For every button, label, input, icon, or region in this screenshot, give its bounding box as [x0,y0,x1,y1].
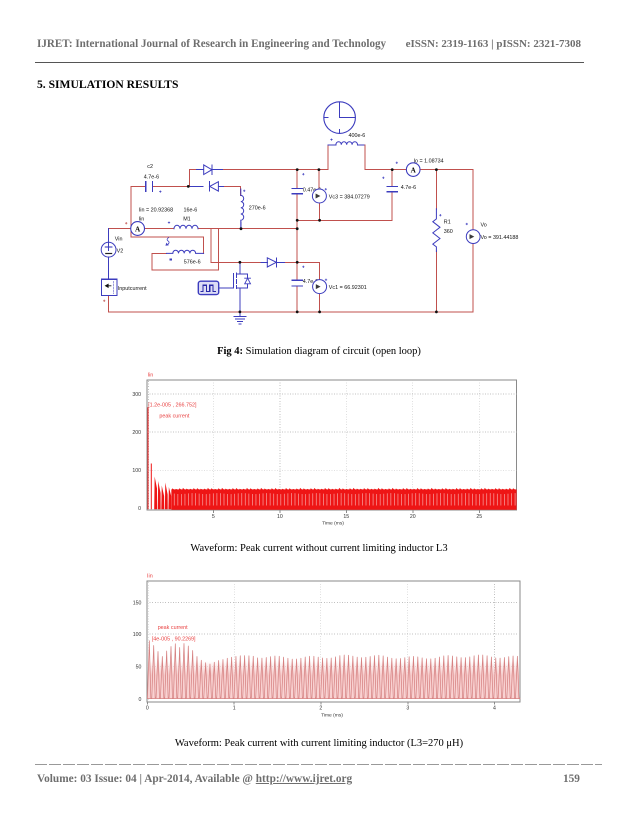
svg-text:Vo: Vo [481,223,487,229]
wire diode D3 leads [261,261,287,263]
svg-text:Vc3 = 384.07279: Vc3 = 384.07279 [329,194,370,200]
svg-text:360: 360 [444,229,453,235]
diode D3 (points right) [267,258,276,267]
inductor L4 400e-6 [336,142,358,145]
page number [563,773,580,785]
chart 2 y axis labels [133,600,142,703]
svg-text:10: 10 [277,514,283,520]
wire output right leg to voltmeter Vo [472,170,474,312]
waveform 1 caption [0,543,638,554]
wire C2 branch vertical [130,186,132,236]
svg-text:Iin: Iin [147,574,153,580]
svg-text:100: 100 [132,468,141,474]
junction C2 / D1 / D2 node [187,185,190,188]
wire diode D3 line [211,261,262,263]
svg-text:Inputcurrent: Inputcurrent [118,286,147,292]
svg-text:16e-6: 16e-6 [184,207,198,213]
svg-text:Vc1 = 66.92301: Vc1 = 66.92301 [329,285,367,291]
svg-text:270e-6: 270e-6 [249,205,266,211]
junction top rail / C3 cap [296,168,299,171]
wire Vin top to ammeter Iin [109,228,131,230]
wire inductor L4 left lead [328,144,336,146]
wire ammeter Io to output corner [420,169,473,171]
chart 1 x axis labels [212,514,482,520]
svg-text:300: 300 [132,392,141,398]
inductor L3 270e-6 [241,189,244,228]
junction ground rail / C1 cap [296,311,299,314]
svg-text:5: 5 [212,514,215,520]
wire 0.47uF cap branch vertical [296,170,298,312]
chart 1 plot frame and grid [147,380,517,513]
svg-text:c2: c2 [147,164,153,170]
wire cap C4 4.7uF leads [391,170,393,221]
svg-text:4.7e-6: 4.7e-6 [144,175,159,181]
svg-text:A: A [411,166,417,174]
svg-text:0: 0 [138,506,141,512]
waveform 2 caption [0,738,638,749]
svg-text:[4e-005 , 90.2269]: [4e-005 , 90.2269] [152,636,196,642]
wire inductor L3 bottom lead to node A [240,222,242,229]
svg-text:0: 0 [139,697,142,703]
svg-text:peak current: peak current [158,625,188,631]
svg-text:[1.2e-005 , 266.752]: [1.2e-005 , 266.752] [148,403,197,409]
capacitor c2 4.7e-6 [146,182,153,192]
svg-text:Iin: Iin [148,373,154,379]
svg-text:4.7e-6: 4.7e-6 [401,185,416,191]
chart 1 y axis labels [132,392,141,512]
voltmeter Vo [466,230,480,244]
wire node A down to secondary return [217,229,219,271]
capacitor 0.47e-6 [292,189,302,194]
chart 2 x axis labels [146,706,496,712]
svg-text:576e-6: 576e-6 [184,260,201,266]
chart 2 red annotations [147,574,196,643]
svg-text:2: 2 [319,706,322,712]
junction ground rail / R1 [435,311,438,314]
voltage source Vin (V2) [108,229,110,280]
junction top rail / C4 cap [391,168,394,171]
wire top rail D2 to transformer riser [224,145,329,170]
svg-text:Io = 1.08734: Io = 1.08734 [414,158,444,164]
svg-text:A: A [135,225,141,233]
svg-text:V2: V2 [117,249,124,255]
capacitor C4 4.7e-6 output filter [387,186,397,191]
junction D3 line / C1 cap [296,261,299,264]
svg-text:0: 0 [146,706,149,712]
svg-text:Vin: Vin [115,237,123,243]
svg-text:100: 100 [133,632,142,638]
inductor 576e-6 (secondary) [167,250,204,253]
junction mid rail / voltmeter Vc3 [318,219,321,222]
inductor M1 16e-6 (primary) [174,225,198,228]
junction node A / C3 branch [296,227,299,230]
svg-text:400e-6: 400e-6 [349,133,366,139]
wire node A rail: M1 right to 0.47uF cap branch [198,228,297,230]
svg-text:Iin = 20.92368: Iin = 20.92368 [139,207,173,213]
wire ammeter Iin to inductor M1 [145,228,174,230]
wire diode D1 anode to inductor L3 corner [218,185,226,187]
svg-text:15: 15 [343,514,349,520]
svg-text:M1: M1 [183,217,191,223]
voltmeter Vc3 [312,189,326,203]
wire diode D2 branch riser [189,170,197,187]
wire input source bottom lead [108,295,110,312]
section heading [37,78,178,91]
junction node A / L3 bottom [240,227,243,230]
wire node A down to diode D3 line [210,229,212,263]
figure 4 caption [0,346,638,357]
wire mid rail under caps [297,219,392,221]
gate pulse source [198,281,218,294]
wire secondary top return to C2 branch [131,236,204,238]
junction ground rail / mosfet source [239,311,242,314]
wire secondary right leg up [203,237,205,254]
svg-text:peak current: peak current [159,414,189,420]
ground [234,312,246,324]
junction mid rail / C3 cap [296,219,299,222]
journal header left [37,38,386,50]
ammeter Io [406,163,420,177]
diode D2 (points right) [204,165,212,175]
svg-text:50: 50 [136,665,142,671]
svg-text:1: 1 [233,706,236,712]
voltmeter Vc1 [313,280,327,294]
current sensor Inputcurrent [108,279,110,281]
wire diode D1 cathode lead [188,185,203,187]
svg-text:Iin: Iin [139,217,145,223]
svg-text:25: 25 [476,514,482,520]
mosfet M2 [236,262,240,312]
wire voltmeter Vc3 leads [318,170,321,221]
chart 2 plot frame and grid [147,581,520,704]
footer dashed rule [35,764,602,765]
wire R1 bottom lead [435,251,437,312]
resistor R1 360 [433,209,440,252]
ammeter Iin [131,222,145,236]
wire secondary bottom return [152,269,218,271]
wire C2 to node B junction [153,185,195,187]
clock probe [324,102,356,134]
svg-text:200: 200 [132,430,141,436]
svg-text:20: 20 [410,514,416,520]
svg-text:4: 4 [493,706,496,712]
journal header right [406,38,581,50]
svg-text:Time (ms): Time (ms) [322,521,344,527]
wire L4 right riser to ammeter Io [365,145,407,170]
svg-text:Time (ms): Time (ms) [321,712,343,718]
diode D1 (points left) [210,182,219,191]
junction D3 line / mosfet drain [239,261,242,264]
wire bottom ground rail [109,311,474,313]
junction top rail / voltmeter Vc3 [318,168,321,171]
capacitor C1 4.7e-6 [292,280,302,286]
junction ground rail / voltmeter Vc1 [318,311,321,314]
chart 1 waveform Iin [148,407,151,509]
svg-text:Vo = 391.44188: Vo = 391.44188 [481,235,519,241]
header rule [35,62,584,63]
chart 1 red annotations [148,373,197,420]
junction top rail / R1 [435,168,438,171]
wire diode D2 leads [197,169,225,171]
svg-text:3: 3 [406,706,409,712]
svg-text:R1: R1 [444,220,451,226]
wire secondary left leg [152,253,166,270]
coupling mark k [166,238,169,246]
wire C2 left lead [131,185,145,187]
wire D3 to output cap C1 [286,262,320,312]
wire R1 top lead [435,170,437,210]
footer text [37,773,352,785]
wire inductor L4 right lead [358,144,366,146]
svg-text:150: 150 [133,600,142,606]
